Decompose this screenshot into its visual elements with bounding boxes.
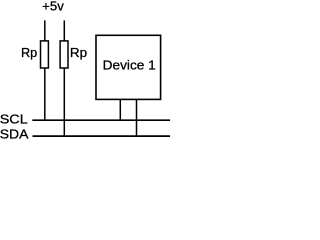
svg-text:SCL: SCL: [0, 111, 28, 126]
svg-text:Rp: Rp: [70, 45, 87, 60]
svg-text:Device 1: Device 1: [103, 57, 156, 72]
svg-text:+5v: +5v: [42, 0, 64, 14]
svg-text:Rp: Rp: [21, 45, 37, 60]
svg-text:SDA: SDA: [0, 127, 29, 141]
